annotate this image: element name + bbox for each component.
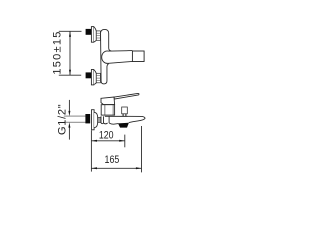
svg-text:G1/2": G1/2"	[56, 104, 68, 136]
svg-text:150±15: 150±15	[51, 30, 63, 74]
svg-text:120: 120	[99, 130, 114, 142]
svg-text:165: 165	[105, 154, 120, 166]
